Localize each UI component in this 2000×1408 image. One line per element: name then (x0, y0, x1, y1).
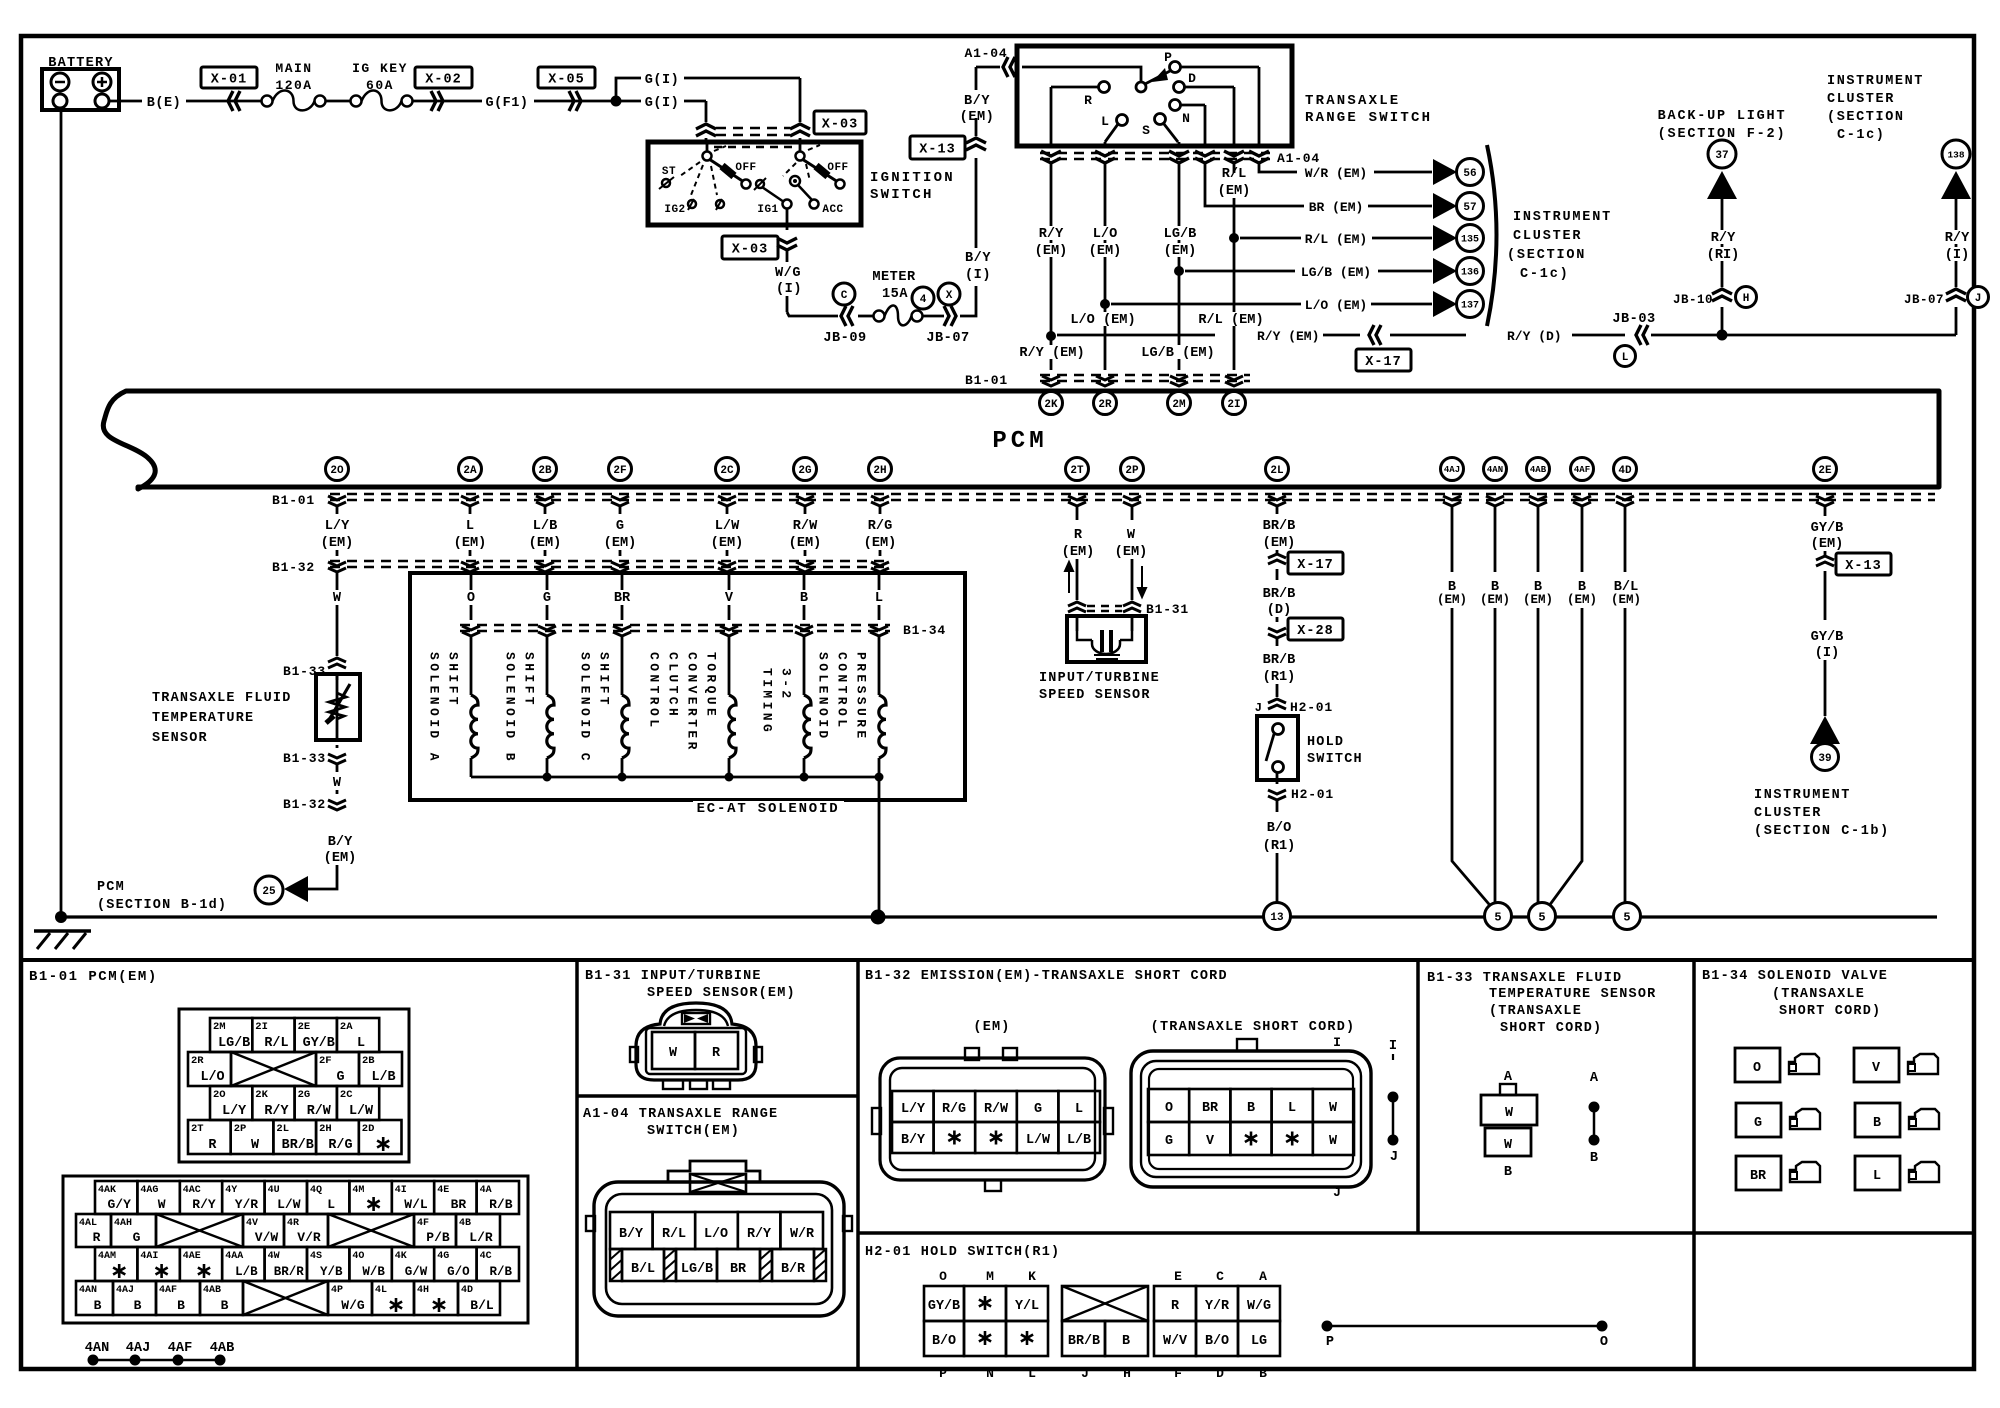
svg-text:SPEED SENSOR: SPEED SENSOR (1039, 688, 1151, 703)
svg-text:R/W: R/W (984, 1102, 1009, 1117)
wire B/Y riser to X-13 (975, 158, 978, 248)
connector B1-01 dashed line below PCM (272, 493, 1935, 508)
svg-text:R/W: R/W (793, 519, 818, 534)
svg-text:MAIN: MAIN (275, 61, 312, 76)
svg-text:B/L: B/L (631, 1262, 655, 1277)
svg-text:4A: 4A (480, 1185, 492, 1196)
label INSTRUMENT CLUSTER (SECTION C-1c) (1507, 210, 1612, 282)
solenoid L2 SHIFT SOLENOID B (503, 636, 555, 777)
svg-text:X-01: X-01 (211, 72, 247, 87)
svg-text:B1-01: B1-01 (272, 493, 315, 508)
svg-text:D: D (1216, 1366, 1224, 1381)
svg-text:(I): (I) (1815, 646, 1839, 661)
label B/Y (I) meter riser (965, 251, 991, 283)
svg-text:(SECTION: (SECTION (1827, 110, 1905, 125)
svg-text:SHORT CORD): SHORT CORD) (1500, 1021, 1602, 1036)
svg-text:IGNITION: IGNITION (870, 170, 955, 186)
svg-text:4U: 4U (268, 1185, 280, 1196)
svg-text:BR/B: BR/B (1263, 653, 1296, 668)
PCM pin 2R (1094, 392, 1117, 415)
svg-text:4AN: 4AN (1487, 465, 1503, 475)
svg-text:JB-07: JB-07 (1904, 293, 1944, 307)
wire L (EM) from PCM to B1-32 (454, 507, 487, 556)
svg-text:K: K (1028, 1269, 1036, 1284)
B1-34 pin B (1855, 1103, 1939, 1137)
svg-text:R/L: R/L (264, 1036, 288, 1051)
labels on range switch columns (1016, 226, 1266, 361)
svg-text:L/B: L/B (1067, 1133, 1091, 1148)
label TRANSAXLE RANGE SWITCH (1305, 93, 1432, 126)
svg-text:CONTROL: CONTROL (835, 652, 850, 730)
svg-text:(R1): (R1) (1263, 839, 1296, 854)
PCM pin 4AN (1484, 458, 1507, 481)
svg-text:37: 37 (1715, 150, 1728, 162)
svg-text:2E: 2E (298, 1021, 311, 1033)
svg-text:B: B (1259, 1366, 1267, 1381)
svg-text:L: L (1873, 1169, 1881, 1184)
PCM pin 2I (1223, 392, 1246, 415)
svg-text:V/R: V/R (297, 1230, 321, 1245)
svg-text:EC-AT SOLENOID: EC-AT SOLENOID (697, 801, 840, 817)
svg-text:L/B: L/B (371, 1070, 395, 1085)
wire G(I) upper branch (616, 73, 800, 101)
transaxle range switch S2 (1017, 46, 1292, 146)
svg-text:(TRANSAXLE: (TRANSAXLE (1489, 1004, 1582, 1019)
svg-text:2I: 2I (1227, 399, 1240, 411)
svg-text:2M: 2M (1172, 399, 1186, 411)
svg-text:INPUT/TURBINE: INPUT/TURBINE (1039, 671, 1160, 686)
svg-text:W: W (1329, 1134, 1338, 1149)
wire L/B (EM) from PCM to B1-32 (529, 507, 562, 556)
svg-text:4Y: 4Y (225, 1185, 237, 1196)
svg-text:W: W (1329, 1101, 1338, 1116)
svg-text:M: M (986, 1269, 994, 1284)
panel title B1-33 TRANSAXLE FLUID TEMPERATURE SENSOR (1427, 971, 1656, 1036)
svg-text:5: 5 (1538, 910, 1545, 924)
svg-text:L/Y: L/Y (222, 1104, 247, 1119)
svg-text:4C: 4C (480, 1251, 492, 1262)
svg-text:R/Y: R/Y (264, 1104, 289, 1119)
svg-text:G/Y: G/Y (107, 1197, 131, 1212)
svg-text:L/W: L/W (277, 1197, 301, 1212)
svg-text:L: L (1622, 352, 1629, 364)
svg-text:B1-01: B1-01 (965, 373, 1008, 388)
svg-text:V/W: V/W (255, 1230, 279, 1245)
wire W to temp sensor (333, 572, 342, 656)
svg-text:4Q: 4Q (310, 1185, 322, 1196)
svg-text:LG/B (EM): LG/B (EM) (1301, 265, 1371, 280)
svg-text:B/Y: B/Y (964, 94, 990, 109)
svg-text:A1-04: A1-04 (1277, 151, 1320, 166)
svg-text:B/O: B/O (1205, 1334, 1229, 1349)
svg-text:BR/B: BR/B (1263, 587, 1296, 602)
svg-text:CLUSTER: CLUSTER (1754, 806, 1822, 821)
svg-text:(EM): (EM) (1062, 545, 1095, 560)
svg-text:TIMING: TIMING (760, 668, 775, 735)
connector X-28 (1268, 617, 1343, 640)
solenoid common return bus (471, 773, 884, 915)
svg-text:B/O: B/O (1267, 821, 1291, 836)
svg-text:W/B: W/B (362, 1265, 385, 1279)
svg-text:4AJ: 4AJ (126, 1341, 150, 1356)
svg-text:BATTERY: BATTERY (48, 56, 114, 71)
svg-text:4V: 4V (246, 1218, 258, 1229)
svg-text:R: R (93, 1230, 101, 1245)
svg-text:2I: 2I (255, 1021, 268, 1033)
wire R/W (EM) from PCM to B1-32 (789, 507, 822, 556)
svg-text:B: B (94, 1298, 102, 1313)
svg-text:2H: 2H (319, 1123, 332, 1135)
svg-text:J: J (1255, 701, 1262, 715)
svg-text:H: H (1123, 1366, 1131, 1381)
svg-text:L/Y: L/Y (325, 519, 350, 534)
svg-text:(EM): (EM) (1164, 244, 1197, 259)
svg-text:C: C (1216, 1269, 1224, 1284)
wire R/Y (EM) R column (1046, 163, 1056, 370)
svg-text:W: W (1505, 1106, 1514, 1121)
svg-text:(EM): (EM) (864, 536, 897, 551)
svg-text:B: B (1504, 1165, 1512, 1180)
svg-text:INSTRUMENT: INSTRUMENT (1827, 74, 1924, 89)
svg-text:(EM): (EM) (1263, 536, 1296, 551)
svg-text:SWITCH(EM): SWITCH(EM) (647, 1124, 740, 1139)
junction block circle C (833, 283, 855, 305)
B1-34 pin V (1854, 1048, 1938, 1082)
svg-text:V: V (1206, 1134, 1215, 1149)
solenoid L4 TORQUE CONVERTER CLUTCH CONTROL (647, 636, 737, 777)
svg-text:R/G: R/G (868, 519, 892, 534)
svg-text:B1-32 EMISSION(EM)-TRANSAXLE S: B1-32 EMISSION(EM)-TRANSAXLE SHORT CORD (865, 969, 1228, 984)
svg-text:BR/B: BR/B (282, 1138, 314, 1153)
svg-text:J: J (1333, 1185, 1341, 1200)
svg-text:(TRANSAXLE: (TRANSAXLE (1772, 987, 1865, 1002)
svg-text:W: W (251, 1138, 260, 1153)
svg-text:W/G: W/G (1247, 1299, 1271, 1314)
svg-text:BR/R: BR/R (274, 1265, 305, 1279)
connector table B1-01 PCM(EM) 2x (179, 1009, 409, 1162)
svg-text:CONTROL: CONTROL (647, 652, 662, 730)
connector X-03 box lower (722, 236, 778, 259)
svg-text:W: W (1127, 528, 1136, 543)
svg-text:BR: BR (1202, 1101, 1219, 1116)
svg-text:136: 136 (1461, 268, 1479, 279)
wire B/Y (EM) to A1-04 (976, 67, 1000, 136)
PCM pin 2A (459, 458, 482, 481)
connector X-17 on 2L wire (1268, 552, 1343, 574)
wire B/Y to PCM section B-1d (308, 865, 337, 889)
svg-text:OFF: OFF (827, 162, 848, 174)
svg-text:W/V: W/V (1163, 1334, 1188, 1349)
svg-text:4F: 4F (417, 1218, 429, 1229)
connector drawing A1-04 range switch (586, 1161, 852, 1316)
svg-text:4L: 4L (375, 1285, 387, 1296)
svg-text:B: B (1247, 1101, 1255, 1116)
svg-text:B: B (177, 1298, 185, 1313)
back-up light branch (SECTION F-2) (1658, 109, 1787, 287)
svg-text:LG/B: LG/B (681, 1262, 713, 1277)
label INPUT/TURBINE SPEED SENSOR (1039, 671, 1160, 703)
wire W (EM) PCM 2P (1115, 507, 1148, 600)
svg-text:D: D (1188, 71, 1196, 86)
svg-text:O: O (467, 591, 475, 606)
svg-text:P: P (1164, 50, 1172, 65)
node solenoid return to ground (871, 910, 886, 925)
svg-text:G: G (1754, 1116, 1762, 1131)
svg-text:(EM): (EM) (604, 536, 637, 551)
svg-text:A1-04 TRANSAXLE RANGE: A1-04 TRANSAXLE RANGE (583, 1107, 778, 1122)
svg-text:R/Y: R/Y (1945, 231, 1970, 246)
cluster input 56 (1433, 159, 1484, 186)
svg-text:2T: 2T (191, 1123, 204, 1135)
svg-text:L: L (466, 519, 474, 534)
svg-text:B1-31: B1-31 (1146, 602, 1189, 617)
svg-text:2T: 2T (1070, 465, 1084, 477)
svg-text:2M: 2M (213, 1021, 226, 1033)
svg-text:(EM): (EM) (789, 536, 822, 551)
svg-text:4AN: 4AN (85, 1341, 109, 1356)
connector B1-33 arrow lower (283, 745, 346, 766)
svg-text:W/G: W/G (341, 1298, 365, 1313)
node back-up light junction (1717, 330, 1728, 341)
svg-text:4AC: 4AC (183, 1185, 201, 1196)
svg-text:(EM): (EM) (1523, 593, 1553, 607)
svg-text:BR: BR (1750, 1169, 1767, 1184)
svg-text:I: I (1389, 1039, 1397, 1054)
svg-text:2P: 2P (1125, 465, 1139, 477)
svg-text:(SECTION C-1b): (SECTION C-1b) (1754, 824, 1890, 839)
legend marker I-J (1388, 1039, 1399, 1165)
svg-text:4AM: 4AM (98, 1251, 116, 1262)
solenoid L6 PRESSURE CONTROL SOLENOID (816, 636, 887, 777)
svg-text:(RI): (RI) (1707, 248, 1740, 263)
B1-34 pin BR (1736, 1156, 1820, 1190)
connector B1-01 arrows above PCM (965, 373, 1250, 388)
svg-text:4AA: 4AA (225, 1251, 243, 1262)
wire to ignition switch contacts (706, 78, 800, 142)
svg-text:(D): (D) (1267, 603, 1291, 618)
svg-text:2C: 2C (340, 1089, 353, 1101)
svg-text:57: 57 (1463, 202, 1476, 214)
solenoid wire O (467, 572, 475, 620)
connector X-05 (538, 67, 595, 111)
instrument cluster terminal 39 (1810, 716, 1840, 771)
svg-text:(EM): (EM) (1480, 593, 1510, 607)
instrument cluster branch (SECTION C-1c) 138 (1827, 74, 1971, 287)
svg-text:BR (EM): BR (EM) (1309, 200, 1364, 215)
svg-text:B/L: B/L (470, 1298, 494, 1313)
svg-text:4AK: 4AK (98, 1185, 116, 1196)
svg-text:B1-33 TRANSAXLE FLUID: B1-33 TRANSAXLE FLUID (1427, 971, 1622, 986)
ignition switch S1 (648, 142, 861, 225)
svg-text:L: L (875, 591, 883, 606)
svg-text:L/W: L/W (715, 519, 740, 534)
svg-text:R/Y (EM): R/Y (EM) (1019, 346, 1084, 361)
svg-text:(I): (I) (965, 268, 991, 283)
svg-text:B: B (1590, 1151, 1598, 1166)
connector B1-31 arrows (1068, 602, 1189, 617)
svg-text:(EM): (EM) (454, 536, 487, 551)
svg-text:LG/B: LG/B (1164, 227, 1197, 242)
svg-text:H2-01: H2-01 (1291, 787, 1334, 802)
svg-text:INSTRUMENT: INSTRUMENT (1754, 788, 1851, 803)
label HOLD SWITCH (1307, 735, 1363, 767)
svg-text:(EM): (EM) (711, 536, 744, 551)
svg-text:Y/R: Y/R (1205, 1299, 1230, 1314)
PCM pin 2L (1266, 458, 1289, 481)
svg-text:4AI: 4AI (140, 1251, 158, 1262)
svg-text:R: R (208, 1138, 217, 1153)
solenoid wire V (725, 572, 734, 620)
PCM pin 2C (716, 458, 739, 481)
svg-text:N: N (986, 1366, 994, 1381)
connector H2-01 lower arrow (1268, 773, 1334, 802)
svg-text:O: O (1753, 1061, 1761, 1076)
svg-text:GY/B: GY/B (928, 1299, 960, 1314)
svg-text:G: G (133, 1230, 141, 1245)
connector X-02 (415, 67, 472, 111)
PCM pin 4AB (1527, 458, 1550, 481)
svg-text:SHIFT: SHIFT (597, 652, 612, 708)
svg-text:4H: 4H (417, 1285, 429, 1296)
svg-text:L: L (1288, 1101, 1296, 1116)
svg-text:(EM): (EM) (1811, 537, 1844, 552)
connector JB-03 with circle L (1612, 312, 1655, 367)
solenoid wire BR (614, 572, 631, 620)
svg-text:L: L (357, 1036, 365, 1051)
svg-text:LG: LG (1251, 1334, 1267, 1349)
svg-text:4AF: 4AF (1574, 465, 1590, 475)
svg-text:B1-31 INPUT/TURBINE: B1-31 INPUT/TURBINE (585, 969, 762, 984)
label BR/B (D) (1263, 569, 1296, 618)
svg-text:4AF: 4AF (159, 1285, 177, 1296)
wire R/L (EM) D to cluster 135 (1229, 163, 1432, 370)
svg-text:G: G (336, 1070, 344, 1085)
svg-text:W/G: W/G (775, 266, 801, 281)
PCM pin 2M (1168, 392, 1191, 415)
input/turbine speed sensor G1 (1067, 616, 1146, 662)
svg-text:V: V (1872, 1061, 1881, 1076)
label R/L (EM) vertical (1218, 167, 1251, 199)
wire R/G (EM) from PCM to B1-32 (864, 507, 897, 556)
svg-text:V: V (725, 591, 734, 606)
connector H2-01 pin J (1255, 699, 1333, 716)
svg-text:L/R: L/R (469, 1230, 493, 1245)
svg-text:OFF: OFF (735, 162, 756, 174)
drawing B1-33 temp sensor pins (1481, 1070, 1537, 1180)
svg-text:4D: 4D (461, 1285, 473, 1296)
svg-text:TEMPERATURE: TEMPERATURE (152, 711, 254, 726)
svg-text:B1-32: B1-32 (283, 797, 326, 812)
svg-text:R/Y: R/Y (1039, 227, 1064, 242)
connector X-13 on 2E wire (1816, 553, 1891, 575)
svg-text:R/G: R/G (942, 1102, 966, 1117)
svg-text:METER: METER (872, 270, 916, 285)
instrument cluster bracket (1487, 145, 1497, 326)
svg-text:G(F1): G(F1) (485, 96, 528, 111)
svg-text:4E: 4E (437, 1185, 449, 1196)
svg-text:IG KEY: IG KEY (352, 61, 408, 76)
svg-text:HOLD: HOLD (1307, 735, 1344, 750)
svg-text:GY/B: GY/B (1811, 521, 1844, 536)
svg-text:A: A (1590, 1071, 1599, 1086)
PCM pin 4D (1614, 458, 1637, 481)
svg-text:G(I): G(I) (645, 96, 679, 111)
bottom panel dividers (21, 960, 1974, 1369)
svg-text:X-03: X-03 (732, 242, 768, 257)
svg-text:L/Y: L/Y (901, 1102, 926, 1117)
svg-text:J: J (1975, 293, 1982, 305)
svg-text:B1-34: B1-34 (903, 623, 946, 638)
svg-text:R/L (EM): R/L (EM) (1305, 232, 1367, 247)
svg-text:(SECTION B-1d): (SECTION B-1d) (97, 898, 227, 913)
label BR/B (R1) (1263, 638, 1296, 697)
connector X-01 (201, 67, 257, 111)
svg-text:4AJ: 4AJ (1444, 465, 1460, 475)
svg-text:4AJ: 4AJ (116, 1285, 134, 1296)
svg-text:2C: 2C (720, 465, 734, 477)
svg-text:X-05: X-05 (548, 72, 584, 87)
transaxle fluid temperature sensor TH1 (316, 674, 360, 740)
svg-text:S: S (1142, 123, 1150, 138)
svg-text:B/Y: B/Y (619, 1227, 644, 1242)
legend marker A-B (1589, 1071, 1600, 1166)
svg-text:SPEED SENSOR(EM): SPEED SENSOR(EM) (647, 986, 796, 1001)
svg-text:(EM): (EM) (1089, 244, 1122, 259)
PCM pin 2E (1814, 458, 1837, 481)
svg-text:JB-07: JB-07 (926, 331, 969, 346)
svg-text:A: A (1504, 1070, 1513, 1085)
svg-text:L/O (EM): L/O (EM) (1305, 298, 1367, 313)
svg-text:138: 138 (1947, 149, 1964, 160)
svg-text:BACK-UP LIGHT: BACK-UP LIGHT (1658, 109, 1787, 124)
svg-text:2K: 2K (1044, 399, 1058, 411)
svg-text:4R: 4R (287, 1218, 299, 1229)
svg-text:INSTRUMENT: INSTRUMENT (1513, 210, 1612, 225)
svg-text:L: L (1028, 1366, 1036, 1381)
svg-text:2B: 2B (362, 1055, 375, 1067)
solenoid wire B (800, 572, 808, 620)
svg-text:L/O: L/O (200, 1070, 224, 1085)
svg-text:R/Y: R/Y (1711, 231, 1736, 246)
svg-text:(SECTION: (SECTION (1507, 248, 1586, 263)
svg-text:4AB: 4AB (210, 1341, 234, 1356)
svg-text:IG1: IG1 (757, 204, 778, 216)
wire B (EM) 4AJ (1437, 507, 1494, 910)
svg-text:4K: 4K (395, 1251, 407, 1262)
svg-text:TRANSAXLE: TRANSAXLE (1305, 93, 1400, 109)
wire L/W (EM) from PCM to B1-32 (711, 507, 744, 556)
svg-text:B: B (221, 1298, 229, 1313)
wire B/O (R1) to ground 13 (1263, 800, 1296, 903)
svg-text:RANGE SWITCH: RANGE SWITCH (1305, 110, 1432, 126)
svg-text:X: X (946, 290, 953, 302)
svg-text:R/Y (D): R/Y (D) (1507, 329, 1562, 344)
svg-text:R: R (1084, 93, 1092, 108)
svg-text:X-17: X-17 (1297, 558, 1333, 573)
svg-text:2L: 2L (1270, 465, 1284, 477)
label B/Y (EM) (960, 94, 995, 125)
svg-text:G(I): G(I) (645, 73, 679, 88)
PCM pin 2H (869, 458, 892, 481)
svg-text:2L: 2L (276, 1123, 289, 1135)
svg-text:O: O (1600, 1335, 1608, 1350)
svg-text:P: P (1326, 1335, 1334, 1350)
svg-text:2B: 2B (538, 465, 552, 477)
svg-text:B1-33: B1-33 (283, 751, 326, 766)
svg-text:4AN: 4AN (79, 1285, 97, 1296)
svg-text:2D: 2D (362, 1123, 375, 1135)
PCM pin 2B (534, 458, 557, 481)
